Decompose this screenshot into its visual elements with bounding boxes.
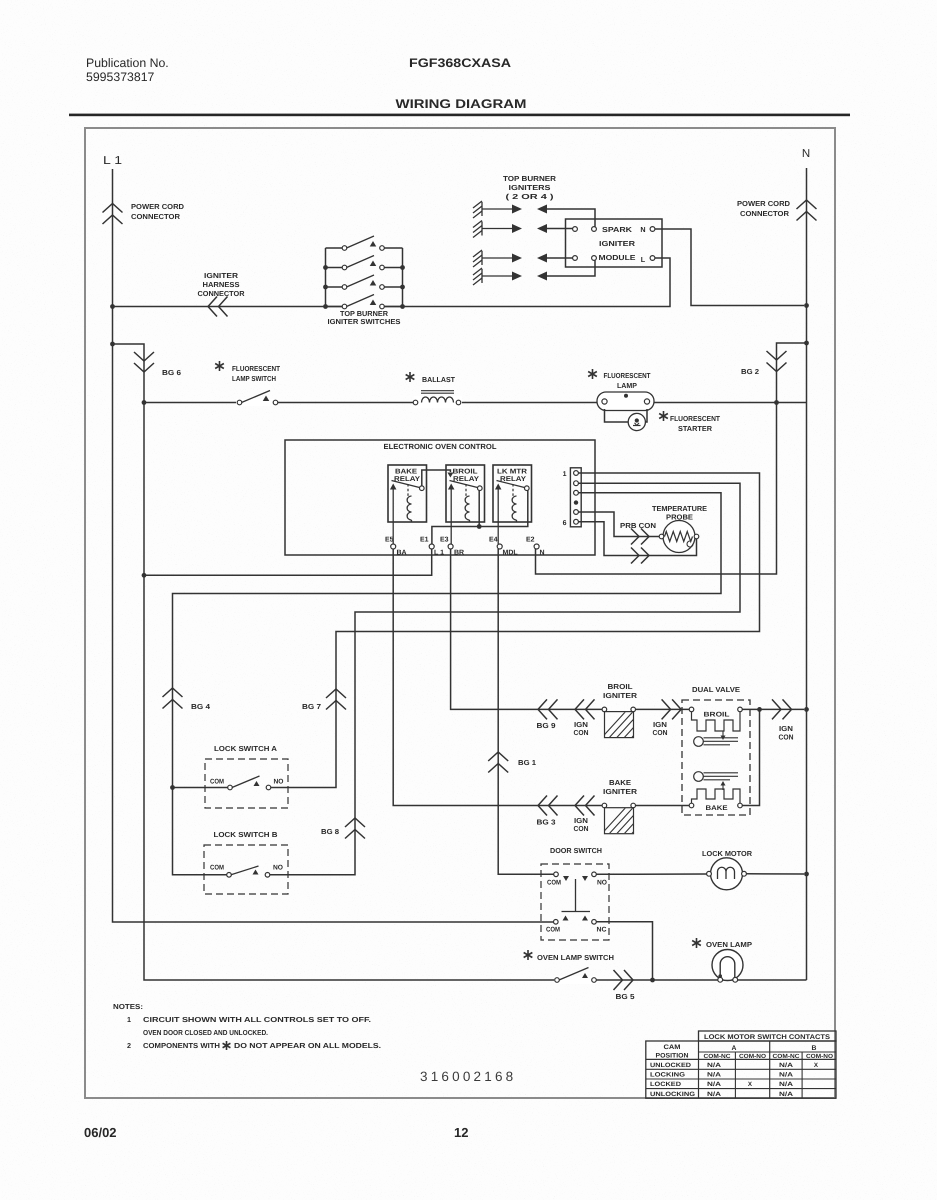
junction valve right	[757, 707, 762, 712]
label lock switch A	[214, 744, 277, 753]
svg-text:POWER CORD: POWER CORD	[131, 202, 184, 211]
wire fluorescent lamp row	[144, 402, 807, 404]
svg-text:BG 1: BG 1	[518, 758, 536, 767]
EOC terminal E1	[420, 537, 444, 557]
connector BG 5 (chevrons)	[614, 970, 634, 990]
svg-text:CAM: CAM	[664, 1044, 681, 1051]
svg-text:RELAY: RELAY	[453, 476, 479, 483]
svg-text:CONNECTOR: CONNECTOR	[198, 289, 246, 298]
temperature probe (resistor in circle)	[659, 521, 699, 553]
bake valve gas outlet	[694, 772, 738, 782]
svg-text:SPARK: SPARK	[602, 225, 633, 234]
wire bake igniter to dual valve	[636, 805, 690, 807]
svg-text:COM-NO: COM-NO	[739, 1053, 766, 1060]
label top burner igniter switches	[328, 309, 401, 326]
svg-text:BG 6: BG 6	[162, 368, 181, 377]
svg-text:RELAY: RELAY	[500, 476, 526, 483]
bake valve actuation arrow	[721, 781, 726, 790]
svg-text:IGNITER: IGNITER	[599, 239, 636, 248]
svg-text:PROBE: PROBE	[666, 513, 693, 522]
label bake valve	[706, 805, 729, 812]
label BG 6	[162, 368, 181, 377]
junction BG6 x fluorescent row	[142, 400, 147, 405]
asterisk oven lamp	[692, 938, 701, 948]
door switch upper pole (COM-NO)	[547, 872, 607, 887]
label fluorescent starter	[670, 414, 721, 433]
label BG 9	[537, 721, 556, 730]
svg-text:IGNITER: IGNITER	[603, 691, 638, 700]
label fluorescent lamp	[604, 371, 652, 390]
label ballast	[422, 375, 456, 384]
svg-text:BAKE: BAKE	[395, 469, 417, 476]
label IGN CON valve-right	[779, 724, 794, 742]
EOC connector pin 6 label	[563, 520, 567, 527]
wire BG2/E2 column (N rail to EOC N pin)	[536, 343, 807, 574]
probe connector PRB CON upper (chevrons)	[631, 529, 649, 545]
wire broil igniter to dual valve	[636, 708, 690, 710]
label BG 3	[537, 818, 556, 827]
dual valve dashed box	[682, 700, 750, 815]
relay K2 BROIL RELAY	[446, 465, 485, 522]
wire fluorescent starter loop	[605, 409, 648, 422]
svg-text:N/A: N/A	[779, 1072, 794, 1079]
svg-text:BROIL: BROIL	[704, 712, 730, 719]
junction N x lock motor wire	[804, 872, 809, 877]
svg-text:BG 4: BG 4	[191, 702, 210, 711]
top burner igniter 4 (electrode + spark gap arrows)	[473, 268, 547, 285]
svg-text:E3: E3	[440, 537, 449, 544]
lock switch A contacts	[210, 776, 284, 790]
EOC connector pin 4 (plugged)	[574, 500, 578, 504]
svg-text:2: 2	[127, 1041, 131, 1050]
junction BG6 x EOC L1 pin wire	[142, 573, 147, 578]
svg-text:COM: COM	[210, 865, 224, 872]
label BG 2	[741, 367, 759, 376]
connector BG 7 (chevrons)	[326, 689, 346, 710]
svg-text:POSITION: POSITION	[656, 1053, 689, 1060]
svg-text:E2: E2	[526, 537, 535, 544]
svg-text:CIRCUIT SHOWN WITH ALL CONTROL: CIRCUIT SHOWN WITH ALL CONTROLS SET TO O…	[143, 1015, 371, 1024]
svg-text:PRB CON: PRB CON	[620, 521, 656, 530]
connector BG 3 (chevrons)	[538, 796, 558, 816]
svg-text:E5: E5	[385, 537, 394, 544]
svg-text:NO: NO	[597, 880, 607, 887]
top burner igniter 2 (electrode + spark gap arrows)	[473, 221, 547, 238]
svg-text:DUAL VALVE: DUAL VALVE	[692, 685, 740, 694]
label IGN CON broil-left	[574, 720, 589, 737]
connector IGN CON valve-right (chevrons)	[772, 699, 792, 719]
wire oven lamp switch to BG5 node	[596, 979, 652, 981]
label lock motor	[702, 849, 753, 858]
svg-text:N: N	[802, 148, 810, 160]
wire EOC pin3 to BG4 / lock switches COM	[173, 493, 722, 875]
table row LOCKING	[650, 1072, 794, 1079]
svg-text:BR: BR	[454, 550, 464, 557]
page header publication number	[86, 56, 169, 84]
junction N x spark module N wire	[804, 303, 809, 308]
power cord connector L1 (chevrons)	[103, 204, 123, 225]
svg-text:COM-NC: COM-NC	[704, 1053, 732, 1060]
svg-text:BALLAST: BALLAST	[422, 375, 456, 384]
svg-text:MDL: MDL	[503, 550, 519, 557]
svg-text:Publication No.: Publication No.	[86, 56, 169, 70]
svg-text:CON: CON	[779, 733, 794, 742]
label lock switch B	[214, 830, 278, 839]
svg-text:1: 1	[127, 1015, 131, 1024]
power cord connector N (chevrons)	[797, 200, 817, 221]
label bake igniter	[603, 778, 638, 796]
connector IGN CON broil-right (chevrons)	[662, 699, 682, 719]
wire oven lamp run to N rail corner	[653, 979, 807, 981]
wire EOC E5/BA pin to bake igniter row	[393, 549, 602, 806]
bake igniter (hot surface igniter, hatched)	[600, 803, 657, 835]
svg-text:ELECTRONIC OVEN CONTROL: ELECTRONIC OVEN CONTROL	[384, 442, 497, 451]
bake valve solenoid (crenellation)	[692, 789, 741, 803]
node N label	[802, 148, 810, 160]
broil valve solenoid (crenellation)	[692, 712, 741, 731]
label door switch	[550, 846, 602, 855]
svg-text:BG 7: BG 7	[302, 702, 321, 711]
spark module pin row3-left	[573, 256, 578, 261]
junction N x broil/bake valve wire	[804, 707, 809, 712]
asterisk fluorescent lamp switch	[215, 361, 224, 371]
svg-text:DO NOT APPEAR ON ALL MODELS.: DO NOT APPEAR ON ALL MODELS.	[234, 1041, 381, 1050]
EOC terminal E4	[489, 537, 518, 557]
svg-text:LAMP SWITCH: LAMP SWITCH	[232, 374, 276, 383]
label BG 1	[518, 758, 536, 767]
page header model number FGF368CXASA	[409, 56, 511, 70]
wire EOC pin5 to temperature probe	[579, 512, 660, 537]
asterisk ballast	[406, 372, 415, 382]
connector BG 4 (chevrons)	[163, 688, 183, 709]
EOC connector pin 1 label	[563, 471, 567, 478]
svg-text:N/A: N/A	[779, 1062, 794, 1069]
top burner igniter 1 (electrode + spark gap arrows)	[473, 201, 547, 218]
connector BG 6 (chevrons)	[134, 352, 154, 372]
footer page number 12	[454, 1125, 468, 1140]
svg-text:LOCKING: LOCKING	[650, 1072, 685, 1079]
connector BG 2 (chevrons)	[767, 351, 787, 372]
igniter harness connector (chevrons)	[208, 297, 228, 317]
svg-text:6: 6	[563, 520, 567, 527]
svg-text:COM-NO: COM-NO	[806, 1053, 833, 1060]
table row LOCKED	[650, 1081, 794, 1088]
notes block	[113, 1002, 381, 1050]
svg-text:CON: CON	[653, 728, 668, 737]
spark module pin N	[640, 225, 655, 234]
svg-text:06/02: 06/02	[84, 1125, 117, 1140]
relay K3 LK MTR RELAY	[493, 465, 532, 522]
table subheaders COM	[704, 1053, 834, 1060]
label top burner igniters	[503, 174, 557, 201]
wire N rail vertical + bottom corner from oven lamp run	[806, 168, 808, 980]
lock switch A dashed box	[205, 759, 288, 808]
electronic oven control box	[285, 440, 595, 555]
svg-text:COM: COM	[547, 880, 561, 887]
svg-text:TOP BURNER: TOP BURNER	[503, 174, 557, 183]
svg-text:IGNITERS: IGNITERS	[509, 183, 551, 192]
svg-text:B: B	[812, 1045, 817, 1052]
wire L1 rail to spark igniter module L	[113, 258, 671, 307]
broil valve actuation arrow	[721, 731, 726, 740]
label BG 4	[191, 702, 210, 711]
table header CAM POSITION	[656, 1044, 689, 1060]
svg-text:BG 3: BG 3	[537, 818, 556, 827]
label IGN CON broil-right	[653, 720, 668, 737]
EOC connector strip	[570, 468, 581, 527]
svg-text:RELAY: RELAY	[394, 476, 420, 483]
svg-text:N/A: N/A	[707, 1091, 722, 1098]
svg-text:COM: COM	[210, 779, 224, 786]
svg-text:L 1: L 1	[103, 155, 122, 167]
label BG 7	[302, 702, 321, 711]
svg-text:( 2 OR 4 ): ( 2 OR 4 )	[506, 192, 555, 201]
svg-text:NO: NO	[274, 779, 284, 786]
relay K1 BAKE RELAY	[388, 465, 427, 522]
dual valve broil terminals	[689, 707, 742, 712]
svg-text:LOCK SWITCH B: LOCK SWITCH B	[214, 830, 278, 839]
label BG 8	[321, 827, 339, 836]
EOC connector pin 6	[574, 519, 579, 524]
EOC terminal E5	[385, 537, 407, 557]
junction N x BG2 branch	[804, 341, 809, 346]
wire lock switch A COM stub	[173, 787, 228, 789]
page title WIRING DIAGRAM	[396, 97, 527, 111]
lock switch B contacts	[210, 865, 283, 878]
wire BG6 branch from L1 rail down to oven-lamp-switch run	[113, 344, 556, 980]
table header B	[812, 1045, 817, 1052]
node L 1 label	[103, 155, 122, 167]
wire broil relay arrow to E3	[450, 522, 452, 544]
svg-text:COM: COM	[546, 927, 560, 934]
svg-text:5995373817: 5995373817	[86, 70, 155, 84]
svg-text:N/A: N/A	[707, 1081, 722, 1088]
svg-text:E4: E4	[489, 537, 498, 544]
title rule	[69, 114, 850, 117]
svg-text:FLUORESCENT: FLUORESCENT	[670, 414, 721, 423]
probe connector PRB CON lower (chevrons)	[631, 548, 649, 564]
label BG 5	[616, 992, 635, 1001]
svg-text:BA: BA	[397, 550, 407, 557]
svg-text:N/A: N/A	[779, 1081, 794, 1088]
label IGN CON bake	[574, 816, 589, 833]
svg-text:CONNECTOR: CONNECTOR	[740, 209, 790, 218]
svg-text:BG 2: BG 2	[741, 367, 759, 376]
junction BG5 node	[650, 978, 655, 983]
wire door switch NC to BG5 node	[596, 922, 652, 980]
svg-text:N: N	[540, 550, 545, 557]
table header A	[732, 1045, 737, 1052]
wire EOC E4/MDL pin to door switch COM	[498, 549, 553, 874]
label PRB CON	[620, 521, 656, 530]
wire EOC E1 pin to BG6 rail	[144, 549, 432, 575]
drawing number 316002168	[420, 1069, 516, 1084]
connector IGN CON broil-left (chevrons)	[575, 699, 595, 719]
label power cord connector N	[737, 199, 790, 218]
svg-text:1: 1	[563, 471, 567, 478]
svg-text:COMPONENTS WITH: COMPONENTS WITH	[143, 1041, 220, 1050]
svg-text:LK MTR: LK MTR	[497, 469, 527, 476]
label broil igniter	[603, 682, 638, 700]
svg-text:316002168: 316002168	[420, 1069, 516, 1084]
wire lk-mtr relay contact to common node	[432, 490, 528, 544]
wire EOC pin6 to probe return	[579, 522, 697, 556]
svg-text:LOCK MOTOR SWITCH CONTACTS: LOCK MOTOR SWITCH CONTACTS	[704, 1034, 831, 1041]
label oven lamp switch	[537, 953, 614, 962]
svg-text:COM-NC: COM-NC	[773, 1053, 801, 1060]
table row UNLOCKED	[650, 1062, 819, 1069]
label electronic oven control	[384, 442, 497, 451]
wire igniter row2 to spark module	[546, 228, 573, 230]
svg-text:LOCK SWITCH A: LOCK SWITCH A	[214, 744, 277, 753]
asterisk in note 2	[223, 1041, 231, 1050]
svg-text:CONNECTOR: CONNECTOR	[131, 212, 181, 221]
svg-text:IGNITER SWITCHES: IGNITER SWITCHES	[328, 317, 401, 326]
ballast (inductor with core)	[413, 391, 462, 408]
svg-text:CON: CON	[574, 728, 589, 737]
wire valve to N rail	[760, 708, 805, 710]
svg-text:OVEN LAMP: OVEN LAMP	[706, 940, 752, 949]
junction BG4 column x lock switch A COM	[170, 785, 175, 790]
door switch lower pole (COM-NC)	[546, 916, 607, 934]
junction L1 x BG6 branch	[110, 342, 115, 347]
connector BG 1 (chevrons)	[488, 752, 508, 773]
svg-text:BG 8: BG 8	[321, 827, 339, 836]
svg-text:NC: NC	[597, 927, 607, 934]
spark module pin row3-mid	[592, 256, 597, 261]
diagram border frame	[85, 128, 835, 1098]
label oven lamp	[706, 940, 752, 949]
oven lamp switch contacts	[554, 968, 597, 985]
wire bake relay contact to broil relay pivot	[422, 470, 454, 486]
label temperature probe	[652, 504, 707, 522]
svg-text:N/A: N/A	[707, 1072, 722, 1079]
door switch dashed box	[541, 864, 609, 940]
svg-text:STARTER: STARTER	[678, 424, 713, 433]
EOC terminal E2	[526, 537, 545, 557]
asterisk oven lamp switch	[524, 950, 533, 960]
EOC connector pin 2	[574, 481, 579, 486]
wire igniter row3 to spark module	[546, 257, 573, 259]
junction relay common x E1 wire	[477, 524, 482, 529]
wire spark module N to N rail	[655, 229, 804, 306]
label fluorescent lamp switch	[232, 364, 281, 383]
table row UNLOCKING	[650, 1091, 794, 1098]
svg-text:FLUORESCENT: FLUORESCENT	[232, 364, 281, 373]
label igniter harness connector	[198, 271, 246, 298]
svg-text:L 1: L 1	[434, 550, 444, 557]
label power cord connector L1	[131, 202, 184, 221]
svg-text:OVEN LAMP SWITCH: OVEN LAMP SWITCH	[537, 953, 614, 962]
wire bake relay arrow to E5	[392, 522, 394, 544]
svg-text:BROIL: BROIL	[453, 469, 479, 476]
svg-text:E1: E1	[420, 537, 429, 544]
EOC terminal E3	[440, 537, 464, 557]
asterisk fluorescent lamp	[588, 369, 597, 379]
svg-text:CON: CON	[574, 824, 589, 833]
top burner igniter 3 (electrode + spark gap arrows)	[473, 250, 547, 267]
spark igniter module box	[566, 219, 663, 267]
table lock motor switch contacts (grid)	[646, 1031, 836, 1098]
EOC connector pin 1	[574, 471, 579, 476]
connector BG 9 (chevrons)	[538, 699, 558, 719]
wire igniter row1 to spark module top	[546, 209, 595, 227]
broil valve gas outlet	[694, 737, 738, 747]
wire lk-mtr relay arrow to E4	[497, 522, 499, 544]
junction BG2 column x fluorescent row	[774, 400, 779, 405]
svg-text:FLUORESCENT: FLUORESCENT	[604, 371, 652, 380]
fluorescent starter (circle symbol)	[628, 413, 645, 430]
spark module pin row2-mid	[592, 227, 597, 232]
wire door switch NO to lock motor	[596, 873, 706, 875]
wire igniter row4 to spark module bottom	[546, 261, 595, 277]
fluorescent lamp switch contacts	[236, 391, 278, 407]
spark module pin row2-left	[573, 227, 578, 232]
wire L1 rail vertical + bottom run to door switch	[113, 169, 557, 922]
svg-text:N/A: N/A	[707, 1062, 722, 1069]
broil igniter (hot surface igniter, hatched)	[600, 707, 657, 739]
label broil valve	[704, 712, 730, 719]
wire lock motor to N rail	[746, 873, 804, 875]
svg-text:IGNITER: IGNITER	[603, 787, 638, 796]
lock switch B dashed box	[204, 845, 288, 894]
top burner igniter switches (4-gang switch bank)	[323, 236, 405, 311]
svg-text:NO: NO	[273, 865, 283, 872]
svg-text:BG 5: BG 5	[616, 992, 635, 1001]
EOC connector pin 5	[574, 510, 579, 515]
svg-text:DOOR SWITCH: DOOR SWITCH	[550, 846, 602, 855]
connector IGN CON bake (chevrons)	[575, 796, 595, 816]
svg-text:BG 9: BG 9	[537, 721, 556, 730]
oven lamp (lamp in circle)	[712, 950, 743, 983]
svg-text:HARNESS: HARNESS	[203, 280, 240, 289]
connector BG 8 (chevrons)	[345, 818, 365, 839]
svg-text:BAKE: BAKE	[706, 805, 729, 812]
dual valve bake terminals	[689, 803, 742, 808]
svg-text:UNLOCKING: UNLOCKING	[650, 1091, 695, 1098]
EOC connector pin 3	[574, 490, 579, 495]
lock motor (motor in circle)	[707, 858, 747, 890]
label dual valve	[692, 685, 740, 694]
svg-text:UNLOCKED: UNLOCKED	[650, 1062, 692, 1069]
footer date 06/02	[84, 1125, 117, 1140]
fluorescent lamp (tube with two pins)	[597, 392, 654, 411]
table header LOCK MOTOR SWITCH CONTACTS	[704, 1034, 831, 1041]
wire valve right side join	[742, 709, 759, 805]
svg-text:MODULE: MODULE	[599, 253, 636, 262]
door switch actuator	[562, 879, 591, 912]
svg-text:OVEN DOOR CLOSED AND UNLOCKED.: OVEN DOOR CLOSED AND UNLOCKED.	[143, 1028, 268, 1037]
spark module pin L	[641, 255, 655, 264]
svg-text:N: N	[640, 225, 645, 234]
svg-text:NOTES:: NOTES:	[113, 1002, 143, 1011]
wire EOC pin2 to BG8 / lock switch B NO	[270, 483, 740, 875]
svg-text:12: 12	[454, 1125, 468, 1140]
wire EOC pin1 to BG7 / lock switch A NO	[271, 473, 760, 788]
wire EOC E3/BR pin to broil igniter row	[451, 549, 602, 709]
asterisk fluorescent starter	[659, 411, 668, 421]
svg-text:FGF368CXASA: FGF368CXASA	[409, 56, 511, 70]
svg-text:LOCKED: LOCKED	[650, 1081, 682, 1088]
spark igniter module label	[599, 225, 636, 262]
svg-text:L: L	[641, 255, 646, 264]
svg-text:BAKE: BAKE	[609, 778, 631, 787]
svg-text:BROIL: BROIL	[608, 682, 634, 691]
svg-text:LOCK MOTOR: LOCK MOTOR	[702, 849, 753, 858]
svg-text:LAMP: LAMP	[617, 381, 637, 390]
svg-text:N/A: N/A	[779, 1091, 794, 1098]
wire broil relay contact to common node	[478, 491, 480, 527]
